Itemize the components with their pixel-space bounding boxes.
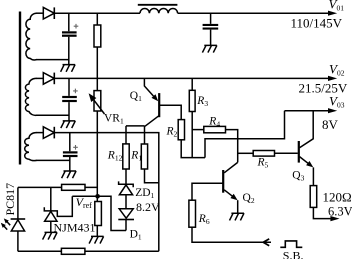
wire node to V03 riser — [205, 111, 285, 158]
zener diode ZD1 — [119, 181, 134, 187]
rectifier diode on W2 — [43, 73, 54, 85]
wire Q3 emitter to 120ohm — [312, 167, 314, 185]
junction node — [95, 194, 100, 199]
variable resistor VR1 arrow — [93, 99, 104, 114]
wire — [36, 12, 43, 14]
wire PC817 to bottom bus — [17, 231, 19, 251]
wire Vref node — [72, 196, 126, 230]
resistor 120 ohm — [310, 186, 317, 208]
resistor R6 — [189, 200, 196, 227]
shunt regulator NJM431 — [44, 196, 72, 216]
resistor R2 — [178, 120, 184, 140]
wire rail V03 — [285, 110, 330, 112]
ground — [202, 45, 217, 52]
transistor Q1 emitter — [144, 78, 153, 96]
ground — [43, 232, 58, 239]
wire rail 3 to bottom bus — [54, 133, 159, 252]
wire — [238, 152, 254, 154]
resistor (bleeder) — [94, 25, 101, 47]
svg-text:8.2V: 8.2V — [136, 200, 160, 214]
ground — [89, 236, 104, 243]
resistor (LED series) — [62, 184, 85, 190]
ground — [62, 171, 77, 178]
filter capacitor C4 lead — [210, 13, 212, 45]
resistor R3 — [189, 90, 195, 111]
filter capacitor C4 plates — [203, 24, 219, 26]
svg-text:120Ω: 120Ω — [323, 189, 352, 204]
wire ZD1 to D1 — [125, 195, 127, 209]
output arrow V03 — [328, 108, 337, 113]
capacitor C2 plates — [62, 96, 77, 98]
svg-text:6.3V: 6.3V — [328, 204, 352, 218]
wire R3 top — [191, 78, 193, 90]
output arrow V01 — [328, 11, 337, 16]
resistor (bottom bus) — [61, 248, 85, 254]
wire Q2 emitter to ground — [237, 200, 239, 213]
inductor L1 — [140, 8, 178, 13]
capacitor C2 (electrolytic) lead — [68, 78, 70, 121]
wire R6 to S.B. input — [192, 227, 271, 242]
capacitor C3 (electrolytic) lead — [69, 133, 71, 171]
wire D1 to Vref corner — [125, 220, 127, 231]
wire NJM431 anode to ground — [50, 221, 52, 232]
wire — [96, 47, 98, 91]
svg-text:S.B.: S.B. — [283, 248, 304, 259]
wire — [96, 13, 98, 25]
inductor L1 core bar — [138, 4, 178, 6]
wire rail V01 — [178, 12, 329, 14]
pulse waveform symbol — [280, 241, 302, 247]
optocoupler PC817 LED — [11, 218, 26, 220]
wire PC817 anode column — [17, 187, 19, 219]
rectifier diode on W1 — [43, 7, 54, 19]
diode D1 — [119, 209, 133, 218]
wire Q2 base to R6 — [192, 183, 223, 200]
ground — [61, 65, 76, 72]
transistor Q3 base bar — [298, 141, 300, 163]
capacitor C2 polarity + — [73, 89, 78, 94]
wire R1 bottom to bus — [145, 169, 159, 183]
wire R3 bottom — [191, 112, 193, 158]
resistor R4 — [204, 126, 226, 132]
transistor Q2 collector — [224, 162, 238, 172]
wire rail V01 — [54, 12, 140, 14]
transformer winding W2 — [25, 78, 36, 115]
wire — [36, 114, 69, 116]
transistor Q1 collector — [145, 116, 159, 127]
wire — [96, 111, 98, 202]
transistor Q3 emitter — [300, 157, 309, 164]
wire — [192, 129, 204, 131]
capacitor C1 polarity + — [74, 24, 79, 29]
transistor Q2 base bar — [222, 170, 224, 193]
svg-text:8V: 8V — [322, 117, 339, 132]
svg-text:110/145V: 110/145V — [291, 16, 343, 31]
transformer core — [19, 12, 21, 165]
resistor R5 — [253, 151, 274, 157]
wire to 6.3V arrow — [313, 207, 330, 218]
capacitor C3 polarity + — [73, 145, 78, 150]
output arrow 6.3V — [330, 216, 339, 221]
resistor R12 — [123, 144, 129, 169]
svg-text:NJM431: NJM431 — [54, 221, 96, 235]
output arrow V02 — [328, 76, 337, 81]
wire rail V02 — [54, 77, 329, 79]
capacitor C1 (electrolytic) lead — [68, 13, 70, 64]
transformer winding W3 — [25, 133, 37, 161]
wire R12 to ZD1 — [125, 169, 127, 184]
wire R4 to Q2 collector — [226, 130, 238, 163]
variable resistor VR1 — [94, 91, 101, 111]
wire Q1 collector node — [126, 126, 145, 144]
ground — [61, 121, 76, 128]
wire — [36, 77, 43, 79]
wire R2 bottom — [181, 140, 205, 158]
wire — [36, 132, 43, 134]
rectifier diode on W3 — [43, 127, 54, 139]
transformer winding W1 — [26, 13, 37, 60]
transistor Q2 emitter — [224, 190, 233, 197]
ground — [230, 213, 245, 220]
resistor (Vref divider) — [95, 202, 102, 226]
transistor Q1 base bar — [158, 93, 160, 117]
capacitor C3 plates — [63, 151, 78, 153]
capacitor C1 plates — [62, 31, 77, 33]
svg-text:PC817: PC817 — [3, 183, 17, 216]
wire Q1 base to R2 — [160, 105, 181, 119]
wire bottom bus — [18, 250, 159, 252]
wire opto feedback (y=187) — [18, 186, 97, 188]
signal arrow (S.B. drive) — [263, 239, 269, 246]
wire — [36, 59, 69, 61]
wire — [36, 159, 70, 161]
wire — [275, 152, 298, 154]
wire NJM431 cathode — [50, 187, 52, 211]
wire — [96, 226, 98, 237]
svg-text:21.5/25V: 21.5/25V — [299, 80, 348, 95]
PC817 light arrows — [6, 221, 10, 226]
transistor Q3 collector — [300, 111, 314, 148]
resistor R1 — [141, 144, 147, 169]
